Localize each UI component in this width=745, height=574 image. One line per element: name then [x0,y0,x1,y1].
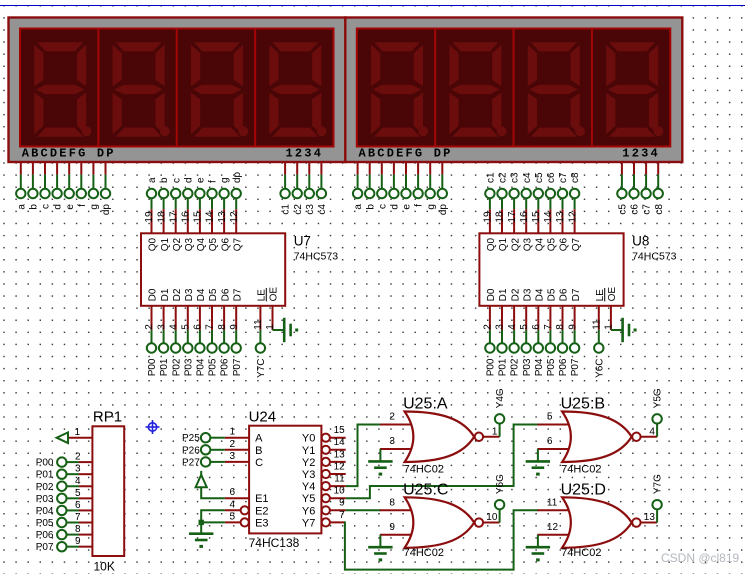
svg-text:7: 7 [205,324,216,330]
svg-text:P03: P03 [183,358,194,376]
svg-text:U24: U24 [249,409,277,426]
U7 pin 12 Q7 + terminal dp [229,171,244,251]
U8 pin 4 D2 + terminal P02 [507,288,522,376]
display DS2 digit pin 1 + terminal c5 [617,161,628,215]
svg-text:Y5G: Y5G [653,388,664,408]
svg-text:c8: c8 [570,172,581,183]
U8 pin 12 Q7 + terminal c8 [567,172,582,251]
svg-text:D4: D4 [196,288,207,301]
wire [537,449,539,461]
svg-text:74HC02: 74HC02 [561,464,601,476]
display DS1 digit pin 4 + terminal c4 [317,161,328,215]
display DS2 digit pin 4 + terminal c8 [654,161,665,215]
wire [380,424,415,426]
svg-text:ABCDEFG DP: ABCDEFG DP [359,147,453,161]
svg-text:17: 17 [507,211,518,223]
svg-text:D7: D7 [232,288,243,301]
svg-text:c7: c7 [558,172,569,183]
U7 pin 8 D6 + terminal P06 [217,288,232,376]
U7 pin 14 Q5 + terminal f [205,180,220,251]
U8 pin 9 D7 + terminal P07 [567,288,582,376]
svg-text:c: c [377,204,388,209]
svg-text:19: 19 [483,211,494,223]
svg-text:P03: P03 [522,358,533,376]
svg-text:D3: D3 [184,288,195,301]
svg-text:Q6: Q6 [220,237,231,251]
svg-text:OE: OE [269,287,280,302]
svg-text:10: 10 [334,486,346,497]
U24 pin 10 Y5 [322,486,346,503]
ground [623,318,637,342]
svg-text:e: e [196,177,207,183]
svg-text:16: 16 [519,211,530,223]
svg-text:D0: D0 [148,288,159,301]
svg-text:CSDN @cl819: CSDN @cl819 [661,551,740,565]
svg-text:12: 12 [547,522,559,533]
RP1 pin 3 + terminal P01 [36,464,93,481]
svg-text:c4: c4 [317,204,328,215]
U8 pin 13 Q6 + terminal c7 [555,172,570,251]
U24 pin 12 Y3 [322,461,346,478]
svg-text:Q0: Q0 [486,237,497,251]
U7 pin 11 LE + terminal Y7C [253,289,268,378]
svg-text:3: 3 [75,464,81,475]
U7 pin 7 D5 + terminal P05 [205,288,220,376]
svg-text:E2: E2 [255,505,268,517]
svg-text:P26: P26 [182,445,200,456]
svg-text:a: a [147,177,158,183]
svg-text:74HC138: 74HC138 [249,536,300,550]
svg-text:c2: c2 [293,204,304,215]
svg-text:4: 4 [168,324,179,330]
svg-text:d: d [183,177,194,183]
svg-text:9: 9 [75,536,81,547]
ground [284,318,298,342]
display DS2 pin g + terminal g [426,161,437,210]
svg-text:2: 2 [229,439,235,450]
svg-text:3: 3 [389,436,395,447]
svg-text:15: 15 [531,211,542,223]
svg-text:P01: P01 [159,358,170,376]
svg-text:11: 11 [253,319,264,330]
svg-text:1: 1 [265,324,276,330]
svg-text:13: 13 [217,211,228,223]
top border line [0,5,745,7]
svg-text:9: 9 [339,498,345,509]
RP1 pin 1 wire [68,437,92,439]
svg-text:c3: c3 [305,204,316,215]
svg-text:2: 2 [75,452,81,463]
display DS2 pin d + terminal d [389,161,400,210]
svg-text:9: 9 [389,522,395,533]
terminal Y5G [649,388,663,437]
svg-text:5: 5 [547,412,553,423]
wire [537,535,539,547]
U7 pin 3 D1 + terminal P01 [156,288,171,376]
svg-text:8: 8 [75,524,81,535]
svg-text:Q7: Q7 [571,237,582,251]
svg-text:P06: P06 [220,358,231,376]
U7 pin 19 Q0 + terminal a [144,177,159,251]
svg-text:d: d [390,204,401,210]
wire [537,424,572,426]
wire [201,487,225,498]
display DS2 pin a + terminal a [353,161,364,210]
U8 pin 16 Q3 + terminal c4 [519,172,534,251]
svg-text:1: 1 [492,426,498,437]
svg-text:6: 6 [75,500,81,511]
origin marker [146,420,160,434]
RP1 pin 8 + terminal P06 [36,524,93,541]
svg-text:Y0: Y0 [302,433,315,445]
svg-text:15: 15 [334,425,346,436]
svg-text:8: 8 [217,324,228,330]
RP1 pin 7 + terminal P05 [36,512,93,529]
power terminal [196,471,207,487]
svg-text:Q2: Q2 [172,237,183,251]
svg-text:14: 14 [543,211,554,223]
svg-text:12: 12 [334,461,346,472]
wire Y6 to U25:C [346,509,381,511]
svg-text:Q6: Q6 [559,237,570,251]
terminal pin 1 (arrow) [57,427,81,443]
junction [199,520,204,525]
U8 pin 8 D6 + terminal P06 [555,288,570,376]
U24 pin 2 + terminal P26 [182,439,249,457]
U8 pin 14 Q5 + terminal c6 [543,172,558,251]
svg-text:U25:B: U25:B [561,396,605,413]
U24 pin 7 Y7 [322,510,346,527]
resistor pack RP1 10K [92,409,124,574]
svg-text:6: 6 [547,436,553,447]
svg-text:B: B [255,445,262,457]
display DS1 digit pin 2 + terminal c2 [293,161,304,215]
svg-text:D6: D6 [559,288,570,301]
display DS2 digit pin 2 + terminal c6 [629,161,640,215]
svg-text:Q4: Q4 [535,237,546,251]
svg-text:13: 13 [334,449,346,460]
svg-text:P06: P06 [36,530,54,541]
svg-text:c3: c3 [510,172,521,183]
display DS1 pin e + terminal e [65,161,76,210]
RP1 pin 4 + terminal P02 [36,476,93,493]
svg-text:P05: P05 [36,518,54,529]
svg-text:13: 13 [555,211,566,223]
svg-text:dp: dp [101,204,112,216]
U24 pin 3 + terminal P27 [182,451,249,469]
svg-text:P00: P00 [36,458,54,469]
wire [379,535,381,547]
svg-text:c6: c6 [546,172,557,183]
svg-text:c5: c5 [534,172,545,183]
svg-text:D0: D0 [486,288,497,301]
svg-text:c1: c1 [281,204,292,215]
svg-text:c5: c5 [618,204,629,215]
U24 pin 9 Y6 [322,498,346,515]
U7 pin 4 D2 + terminal P02 [168,288,183,376]
svg-text:b: b [29,204,40,210]
svg-text:g: g [426,204,437,210]
wire [641,510,657,523]
svg-text:c: c [171,178,182,183]
svg-text:c8: c8 [654,204,665,215]
svg-text:11: 11 [547,498,558,509]
svg-text:D5: D5 [208,288,219,301]
svg-text:8: 8 [389,498,395,509]
wire Y5 to U25:B [346,425,539,499]
svg-text:12: 12 [567,211,578,223]
U7 pin 2 D0 + terminal P00 [144,288,159,376]
NOR gate U25:A 74HC02 [389,396,483,476]
svg-text:C: C [255,457,263,469]
RP1 pin 5 + terminal P03 [36,488,93,505]
svg-text:P02: P02 [171,358,182,376]
svg-text:2: 2 [144,324,155,330]
wire [273,329,284,331]
RP1 pin 9 + terminal P07 [36,536,93,553]
wire [380,509,415,511]
svg-text:D1: D1 [498,288,509,301]
wire [483,424,499,437]
svg-text:Q0: Q0 [148,237,159,251]
svg-text:E3: E3 [255,517,268,529]
svg-text:10: 10 [486,512,498,523]
svg-text:RP1: RP1 [93,409,122,426]
svg-text:P27: P27 [182,457,200,468]
svg-text:Q1: Q1 [498,237,509,251]
svg-text:19: 19 [144,211,155,223]
svg-text:7: 7 [339,510,345,521]
ground [526,546,550,561]
svg-text:P07: P07 [36,542,54,553]
svg-text:P06: P06 [558,358,569,376]
ground [189,533,213,548]
svg-text:Q5: Q5 [547,237,558,251]
display DS1 pin f + terminal f [77,161,88,207]
RP1 pin 6 + terminal P04 [36,500,93,517]
svg-text:7: 7 [543,324,554,330]
svg-text:Q7: Q7 [232,237,243,251]
svg-text:3: 3 [156,324,167,330]
svg-text:dp: dp [232,171,243,183]
svg-text:2: 2 [483,324,494,330]
U8 pin 1 OE [604,287,619,330]
NOR gate U25:C 74HC02 [389,482,483,559]
svg-text:D2: D2 [510,288,521,301]
U24 pin 1 + terminal P25 [182,427,249,445]
svg-text:Y7G: Y7G [653,474,664,494]
terminal Y4G [492,388,506,437]
wire [380,448,415,450]
U7 pin 15 Q4 + terminal e [193,177,208,251]
svg-text:P04: P04 [534,358,545,376]
U24 pin 11 Y4 [322,474,346,491]
svg-text:Y3: Y3 [302,469,315,481]
U8 pin 5 D3 + terminal P03 [519,288,534,376]
svg-text:18: 18 [156,211,167,223]
svg-text:5: 5 [75,488,81,499]
svg-text:f: f [414,204,425,207]
svg-text:P05: P05 [208,358,219,376]
wire [200,522,202,533]
svg-text:10K: 10K [94,560,115,574]
svg-text:11: 11 [592,319,603,330]
svg-text:12: 12 [229,211,240,223]
display DS2 pin dp + terminal dp [438,161,449,215]
svg-text:4: 4 [229,499,235,510]
svg-text:9: 9 [567,324,578,330]
svg-text:dp: dp [438,204,449,216]
svg-text:Q5: Q5 [208,237,219,251]
svg-text:6: 6 [229,487,235,498]
wire [537,534,572,536]
svg-text:Y6C: Y6C [594,359,605,378]
U8 pin 2 D0 + terminal P00 [483,288,498,376]
svg-text:f: f [77,204,88,207]
svg-text:g: g [89,204,100,210]
svg-text:9: 9 [229,324,240,330]
display DS1 digit pin 1 + terminal c1 [280,161,291,215]
ground [368,546,392,561]
svg-text:ABCDEFG DP: ABCDEFG DP [22,147,116,161]
svg-text:Q3: Q3 [184,237,195,251]
svg-text:U8: U8 [632,234,649,249]
svg-text:1: 1 [229,427,235,438]
latch U8 74HC573 [479,233,676,305]
ground [526,460,550,475]
svg-text:U25:A: U25:A [403,396,448,413]
svg-text:Q3: Q3 [522,237,533,251]
U24 pin 4 E2 [225,499,249,514]
display DS1 pin d + terminal d [52,161,63,210]
svg-text:16: 16 [181,211,192,223]
NOR gate U25:B 74HC02 [547,396,641,476]
svg-text:3: 3 [495,324,506,330]
svg-text:4: 4 [75,476,81,487]
svg-text:P05: P05 [546,358,557,376]
svg-text:5: 5 [229,511,235,522]
U24 pin 14 Y1 [322,437,346,454]
svg-text:Q2: Q2 [510,237,521,251]
wire [537,448,572,450]
svg-text:P07: P07 [570,358,581,376]
svg-text:13: 13 [644,512,656,523]
svg-text:74HC573: 74HC573 [294,251,339,263]
U7 pin 13 Q6 + terminal g [217,177,232,251]
svg-text:8: 8 [555,324,566,330]
svg-text:P04: P04 [196,358,207,376]
svg-text:Y6G: Y6G [495,474,506,494]
display DS2 pin f + terminal f [413,161,424,207]
svg-text:b: b [159,177,170,183]
svg-text:c6: c6 [630,204,641,215]
svg-text:Y7: Y7 [302,517,315,529]
display DS2 pin b + terminal b [365,161,376,210]
svg-text:6: 6 [193,324,204,330]
svg-text:e: e [402,204,413,210]
svg-text:U25:C: U25:C [403,482,448,499]
wire Y7 to U25:D [345,510,539,569]
U8 pin 18 Q1 + terminal c2 [495,172,510,251]
U8 pin 11 LE + terminal Y6C [592,289,607,378]
svg-text:1234: 1234 [622,147,660,161]
U8 pin 7 D5 + terminal P05 [543,288,558,376]
terminal Y6G [486,474,506,523]
U7 pin 5 D3 + terminal P03 [181,288,196,376]
U24 pin 13 Y2 [322,449,346,466]
U7 pin 16 Q3 + terminal d [181,177,196,251]
svg-text:P04: P04 [36,506,54,517]
svg-text:P07: P07 [232,358,243,376]
svg-text:c: c [41,204,52,209]
latch U7 74HC573 [141,233,338,305]
U8 pin 15 Q4 + terminal c5 [531,172,546,251]
svg-text:OE: OE [607,287,618,302]
svg-text:D2: D2 [172,288,183,301]
wire [641,424,657,437]
svg-text:11: 11 [334,474,345,485]
U24 pin 6 E1 [225,487,249,498]
svg-text:D6: D6 [220,288,231,301]
svg-text:18: 18 [495,211,506,223]
svg-text:Q4: Q4 [196,237,207,251]
svg-text:2: 2 [389,412,395,423]
svg-text:74HC02: 74HC02 [404,464,444,476]
wire [201,510,225,522]
svg-text:a: a [16,204,27,210]
ground [368,460,392,475]
svg-text:74HC02: 74HC02 [404,547,444,559]
svg-text:1: 1 [74,427,80,438]
terminal Y7G [644,474,664,523]
svg-text:Q1: Q1 [160,237,171,251]
svg-text:g: g [220,177,231,183]
svg-text:d: d [53,204,64,210]
svg-text:74HC573: 74HC573 [632,251,677,263]
U7 pin 1 OE [265,287,280,330]
svg-text:Y7C: Y7C [256,359,267,378]
U7 pin 18 Q1 + terminal b [156,177,171,251]
svg-text:14: 14 [205,211,216,223]
svg-text:D5: D5 [547,288,558,301]
display DS2 pin e + terminal e [401,161,412,210]
display DS1 pin b + terminal b [28,161,39,210]
svg-text:Y6: Y6 [302,505,315,517]
7-segment display DS2 [345,18,682,163]
svg-text:c4: c4 [522,172,533,183]
svg-text:c7: c7 [642,204,653,215]
svg-text:P25: P25 [182,433,200,444]
svg-text:P00: P00 [147,358,158,376]
svg-text:P01: P01 [36,470,54,481]
svg-text:P01: P01 [498,358,509,376]
svg-text:b: b [365,204,376,210]
U8 pin 19 Q0 + terminal c1 [483,172,498,251]
svg-text:P02: P02 [36,482,54,493]
wire [379,449,381,461]
display DS1 pin c + terminal c [40,161,51,209]
svg-text:E1: E1 [255,493,268,505]
NOR gate U25:D 74HC02 [547,482,641,559]
svg-text:4: 4 [507,324,518,330]
svg-text:P03: P03 [36,494,54,505]
svg-text:f: f [208,180,219,183]
svg-text:U25:D: U25:D [561,482,606,499]
svg-text:D1: D1 [160,288,171,301]
U8 pin 17 Q2 + terminal c3 [507,172,522,251]
svg-text:7: 7 [75,512,81,523]
U7 pin 9 D7 + terminal P07 [229,288,244,376]
